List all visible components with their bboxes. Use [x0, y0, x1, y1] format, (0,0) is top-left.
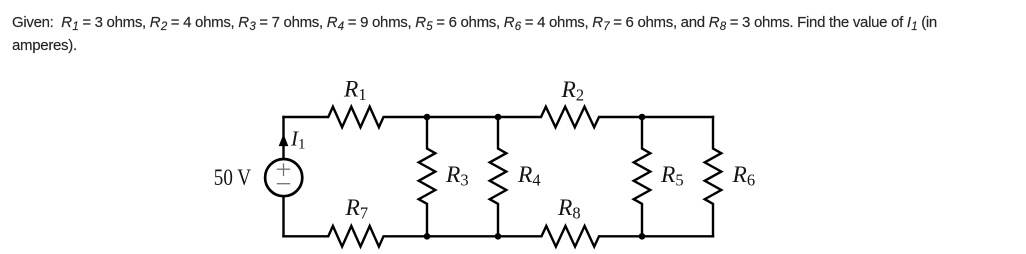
svg-text:R7: R7	[345, 195, 369, 223]
svg-text:R5: R5	[660, 162, 684, 190]
svg-text:R4: R4	[517, 162, 541, 190]
svg-text:R2: R2	[561, 77, 585, 105]
svg-text:50 V: 50 V	[214, 165, 251, 191]
svg-text:R6: R6	[732, 162, 756, 190]
svg-text:R3: R3	[445, 162, 469, 190]
svg-text:I1: I1	[290, 126, 306, 152]
svg-text:R1: R1	[343, 77, 367, 105]
svg-text:R8: R8	[557, 195, 581, 223]
